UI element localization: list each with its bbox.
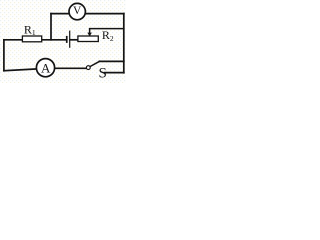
svg-text:V: V	[73, 5, 82, 17]
svg-text:S: S	[99, 66, 107, 82]
svg-text:A: A	[41, 60, 51, 75]
